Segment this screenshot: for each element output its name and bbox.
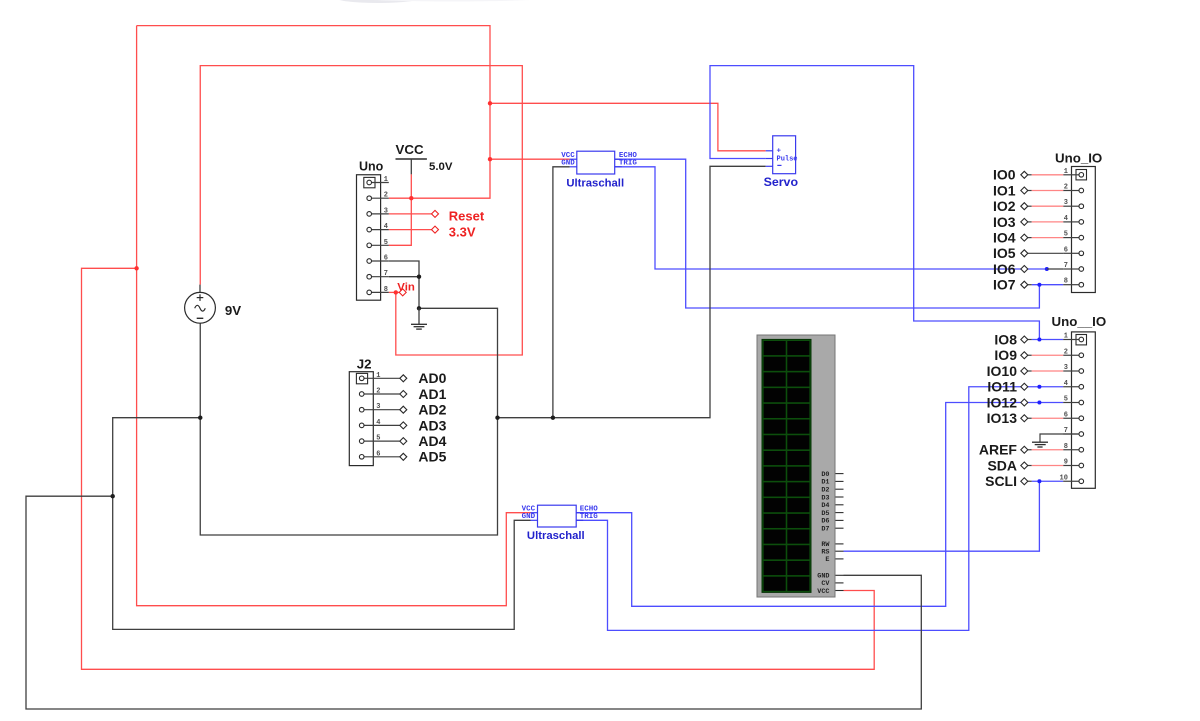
junction GND far-left	[111, 494, 115, 498]
svg-text:D2: D2	[821, 487, 829, 495]
net label Vin	[397, 281, 415, 296]
wire IO7 row segment	[1032, 284, 1064, 286]
svg-text:IO6: IO6	[993, 261, 1016, 277]
svg-text:AD0: AD0	[418, 370, 446, 386]
net label IO7	[993, 277, 1028, 293]
svg-text:TRIG: TRIG	[619, 159, 638, 167]
ultrasonic module U1 Ultraschall	[561, 151, 637, 189]
wire Reset: Uno pin 3 to net label	[389, 213, 432, 215]
svg-text:IO1: IO1	[993, 182, 1016, 198]
svg-text:2: 2	[384, 192, 388, 200]
svg-text:VCC: VCC	[817, 588, 829, 596]
net label IO2	[993, 198, 1028, 214]
wire IO7 row diamond stub	[1027, 284, 1031, 286]
net label IO9	[994, 347, 1027, 363]
svg-text:Servo: Servo	[764, 175, 799, 189]
net label AD5	[400, 449, 447, 465]
svg-text:1: 1	[376, 372, 380, 380]
wire IO0 row segment	[1027, 174, 1031, 176]
svg-text:Ultraschall: Ultraschall	[527, 530, 585, 542]
net label IO10	[987, 363, 1028, 379]
svg-text:9V: 9V	[225, 303, 241, 318]
svg-text:J2: J2	[357, 356, 372, 371]
svg-text:3: 3	[376, 403, 380, 411]
svg-text:D1: D1	[821, 479, 829, 487]
junction IO11	[1037, 385, 1041, 389]
svg-text:D7: D7	[821, 526, 829, 534]
svg-text:IO10: IO10	[987, 363, 1018, 379]
net label Reset	[432, 209, 485, 224]
wire 5V net: branch to Ultraschall U1 VCC	[490, 158, 570, 160]
LCD display LCD1	[757, 335, 844, 597]
wire GND net: Uno pin6 down, big loop left to 9V -	[200, 261, 497, 535]
svg-text:Vin: Vin	[397, 281, 415, 293]
wire U1 TRIG net to IO6	[615, 167, 1047, 269]
svg-text:IO0: IO0	[993, 167, 1016, 183]
net label AD0	[400, 370, 447, 386]
junction 5V left branch	[134, 266, 138, 270]
wire U2 TRIG net to IO11	[576, 387, 1063, 631]
svg-text:10: 10	[1060, 474, 1068, 482]
svg-text:3: 3	[384, 207, 388, 215]
net label IO8	[994, 331, 1027, 347]
junction IO6	[1045, 267, 1049, 271]
wire 5V net: left riser down to Ultraschall U2 VCC	[137, 26, 531, 606]
net label IO6	[993, 261, 1028, 277]
svg-text:IO8: IO8	[994, 331, 1017, 347]
svg-text:AD2: AD2	[418, 402, 446, 418]
svg-text:3: 3	[1064, 364, 1068, 372]
svg-text:E: E	[825, 556, 829, 564]
net label AD4	[400, 433, 447, 449]
net label IO4	[993, 230, 1028, 246]
power symbol VCC 5.0V	[396, 142, 453, 174]
net label 3.3V	[432, 224, 476, 239]
svg-text:AD1: AD1	[418, 386, 446, 402]
svg-text:IO5: IO5	[993, 245, 1016, 261]
wire IO6 row black segment	[1047, 268, 1063, 270]
svg-text:Ultraschall: Ultraschall	[566, 177, 624, 189]
svg-text:AD5: AD5	[418, 449, 446, 465]
svg-text:4: 4	[1064, 380, 1068, 388]
wire GND net: far-left loop to LCD GND	[26, 496, 921, 709]
svg-text:3.3V: 3.3V	[449, 224, 476, 239]
net label IO3	[993, 214, 1028, 230]
svg-text:2: 2	[376, 388, 380, 396]
svg-text:AD3: AD3	[418, 417, 446, 433]
net label IO12	[987, 394, 1028, 410]
wire IO9 row segment	[1027, 354, 1031, 356]
net label AD3	[400, 417, 447, 433]
wire 5V net: branch to LCD VCC via far left	[82, 268, 875, 669]
faint toolbar smudge top	[336, 0, 420, 3]
svg-text:1: 1	[384, 176, 388, 184]
svg-text:Uno_IO: Uno_IO	[1055, 150, 1102, 165]
svg-text:AD4: AD4	[418, 433, 446, 449]
svg-text:9: 9	[1064, 459, 1068, 467]
junction 5V at VCC stem	[409, 196, 413, 200]
junction IO8	[1037, 338, 1041, 342]
svg-text:Uno: Uno	[359, 159, 384, 173]
connector Uno__IO	[1052, 314, 1107, 489]
wire U1 ECHO net to IO7	[615, 159, 1040, 308]
wire 3.3V: Uno pin 4 to net label	[389, 229, 432, 231]
wire 5V net: branch to Servo +	[490, 103, 766, 151]
junction IO7	[1037, 283, 1041, 287]
net label AREF	[979, 442, 1028, 458]
junction Vin	[394, 290, 398, 294]
wire IO8 row diamond stub	[1027, 339, 1031, 341]
wire IO1 row segment	[1027, 190, 1031, 192]
wire U2 ECHO net to IO12	[576, 403, 1063, 607]
svg-text:6: 6	[1064, 411, 1068, 419]
svg-text:8: 8	[1064, 278, 1068, 286]
svg-text:5: 5	[1064, 231, 1068, 239]
svg-text:5: 5	[384, 239, 388, 247]
svg-text:GND: GND	[561, 159, 575, 167]
ground symbol GND (Uno)	[411, 308, 427, 329]
wire 5V net: Uno pin 2 right riser and top run	[137, 26, 490, 199]
source V1 9V	[185, 285, 242, 324]
wire GND net: Uno pin7 stub to junction	[389, 276, 419, 278]
svg-text:8: 8	[384, 286, 388, 294]
junction 5V to U1 branch	[488, 157, 492, 161]
wire GND net: mid run to Servo -	[498, 166, 766, 417]
svg-text:IO9: IO9	[994, 347, 1017, 363]
net label IO13	[987, 410, 1028, 426]
junction GND U1 column	[551, 416, 555, 420]
wire Vin net: to 9V source + terminal	[200, 66, 522, 355]
wire IO10 row segment	[1027, 370, 1031, 372]
net label IO5	[993, 245, 1028, 261]
wire GND net: 9V junction to U2 GND	[113, 418, 531, 630]
net label AD1	[400, 386, 447, 402]
wire Servo Pulse net: servo loop to IO8	[710, 66, 1039, 340]
net label SCLI	[985, 473, 1028, 489]
svg-text:IO7: IO7	[993, 277, 1016, 293]
svg-text:2: 2	[1064, 348, 1068, 356]
ground symbol GND (Uno__IO pin7)	[1032, 442, 1048, 447]
svg-text:8: 8	[1064, 443, 1068, 451]
wire IO4 row segment	[1027, 237, 1031, 239]
wire SCLI row segment	[1032, 480, 1064, 482]
svg-text:5.0V: 5.0V	[429, 161, 453, 173]
svg-text:IO13: IO13	[987, 410, 1018, 426]
svg-text:D5: D5	[821, 510, 829, 518]
svg-text:Reset: Reset	[449, 209, 485, 224]
svg-text:IO4: IO4	[993, 230, 1016, 246]
svg-text:IO3: IO3	[993, 214, 1016, 230]
net label IO0	[993, 167, 1028, 183]
svg-text:5: 5	[1064, 396, 1068, 404]
svg-text:4: 4	[384, 223, 388, 231]
junction GND ground stem	[417, 306, 421, 310]
wire IO2 row segment	[1027, 205, 1031, 207]
svg-text:6: 6	[376, 450, 380, 458]
wire 5V net: VCC stem to Uno pin 5	[389, 174, 412, 245]
svg-text:IO11: IO11	[987, 379, 1017, 395]
wire Vin: Uno pin 8 to net label	[389, 291, 399, 293]
servo module Servo	[764, 136, 799, 189]
svg-text:2: 2	[1064, 184, 1068, 192]
connector Uno_IO	[1055, 150, 1102, 292]
connector Uno	[357, 159, 389, 300]
svg-text:Uno__IO: Uno__IO	[1052, 314, 1107, 329]
wire AREF row segment	[1027, 449, 1031, 451]
net label IO1	[993, 182, 1028, 198]
svg-text:IO12: IO12	[987, 394, 1018, 410]
svg-text:1: 1	[1064, 168, 1068, 176]
wire SCLI row diamond stub	[1027, 480, 1031, 482]
connector J2	[349, 356, 400, 465]
wire LCD RS net to SCLI	[844, 481, 1040, 551]
svg-text:6: 6	[1064, 246, 1068, 254]
svg-text:SDA: SDA	[987, 457, 1017, 473]
wire IO3 row segment	[1027, 221, 1031, 223]
junction 5V to servo branch	[488, 101, 492, 105]
wire GND net: U1 GND down	[553, 167, 570, 418]
svg-text:IO2: IO2	[993, 198, 1016, 214]
junction GND mid column	[495, 416, 499, 420]
svg-text:VCC: VCC	[396, 142, 424, 157]
svg-text:1: 1	[1064, 333, 1068, 341]
net label IO11	[987, 379, 1027, 395]
svg-text:D6: D6	[821, 518, 829, 526]
svg-text:7: 7	[384, 270, 388, 278]
svg-text:D4: D4	[821, 502, 829, 510]
svg-text:5: 5	[376, 435, 380, 443]
svg-text:3: 3	[1064, 199, 1068, 207]
svg-text:D0: D0	[821, 471, 829, 479]
svg-text:+: +	[777, 148, 782, 156]
junction GND 9V column	[198, 416, 202, 420]
net label SDA	[987, 457, 1027, 473]
junction IO12	[1037, 401, 1041, 405]
svg-text:4: 4	[1064, 215, 1068, 223]
wire IO5 row segment	[1027, 252, 1063, 254]
ultrasonic module U2 Ultraschall	[522, 505, 599, 542]
svg-text:SCLI: SCLI	[985, 473, 1017, 489]
wire IO8 row segment	[1032, 339, 1064, 341]
junction GND pin7	[417, 275, 421, 279]
svg-text:6: 6	[384, 255, 388, 263]
net label AD2	[400, 402, 447, 418]
svg-text:Pulse: Pulse	[777, 155, 798, 163]
svg-text:AREF: AREF	[979, 442, 1018, 458]
junction SCLI	[1037, 479, 1041, 483]
svg-text:TRIG: TRIG	[580, 513, 599, 521]
wire SDA row segment	[1027, 465, 1031, 467]
svg-text:D3: D3	[821, 494, 829, 502]
svg-text:4: 4	[376, 419, 380, 427]
svg-text:GND: GND	[522, 513, 536, 521]
wire pin7 to ground	[1040, 434, 1079, 442]
wire IO13 row segment	[1027, 417, 1031, 419]
svg-text:7: 7	[1064, 262, 1068, 270]
